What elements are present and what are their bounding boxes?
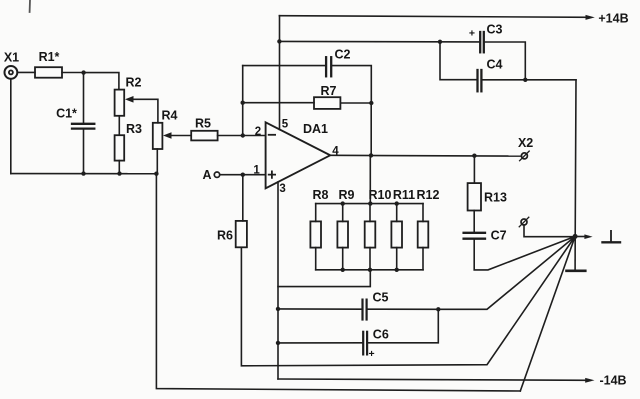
svg-text:R7: R7 [321, 84, 337, 98]
junction C3/C4 right [523, 78, 527, 82]
junction C1/bottom wire [81, 171, 85, 175]
wire R9 top lead [342, 204, 344, 222]
wire R11 top lead [396, 204, 398, 222]
junction C6 left [276, 341, 280, 345]
wire R8-R12 bottom bus [316, 269, 423, 271]
wire star to chassis arrow [575, 234, 593, 239]
svg-text:R6: R6 [217, 229, 233, 243]
capacitor C7 [464, 229, 507, 243]
wire feedback node vertical [242, 66, 244, 136]
wire R13 to C7 [473, 211, 475, 233]
resistor R13 [468, 183, 507, 210]
junction +14V rail / C3 rail [277, 39, 281, 43]
potentiometer R2 [115, 76, 142, 116]
resistor R7 [314, 84, 340, 109]
wire pin 3 supply down [277, 182, 279, 379]
svg-text:C7: C7 [491, 229, 507, 243]
wire C4 left branch [440, 42, 477, 80]
resistor R9 [337, 188, 354, 247]
svg-text:2: 2 [255, 126, 261, 138]
svg-text:C5: C5 [373, 291, 389, 305]
svg-text:R10: R10 [369, 188, 392, 202]
wire R12 top lead [422, 204, 424, 222]
wire shield terminal to star [524, 225, 575, 237]
wire C4 right to ground bus [482, 79, 576, 81]
svg-text:A: A [202, 168, 211, 182]
wire C1 top lead [83, 73, 85, 124]
svg-text:-14В: -14В [599, 374, 626, 388]
capacitor C1* [56, 107, 94, 129]
svg-text:R12: R12 [417, 188, 440, 202]
junction inverting node [241, 133, 245, 137]
wire C7 to star ground [474, 236, 575, 270]
wire left section diagonal to star [520, 236, 575, 391]
resistor R8 [310, 188, 328, 247]
junction output/R13 [472, 154, 476, 158]
wire feedback to output [370, 103, 372, 155]
terminal A [202, 168, 219, 182]
svg-text:R3: R3 [126, 122, 142, 136]
junction R7/C2 right [369, 101, 373, 105]
svg-text:+14В: +14В [598, 12, 628, 26]
svg-text:C4: C4 [487, 58, 503, 72]
wire C6 left lead [278, 342, 363, 344]
wire R6 to star ground run [241, 236, 575, 365]
wire C3 right to C4 right [485, 42, 525, 80]
op-amp DA1 [266, 122, 331, 189]
wire bottom left bus [11, 173, 157, 175]
svg-text:X2: X2 [518, 136, 533, 150]
junction bottom bus R11 [395, 268, 399, 272]
wire A to non-inverting input [220, 174, 266, 176]
capacitor C6 [363, 327, 389, 360]
svg-text:R11: R11 [393, 188, 415, 202]
wire pin3 to R8-R12 bottom bus [278, 270, 370, 287]
wire C2 left branch [243, 65, 325, 67]
svg-text:DA1: DA1 [303, 122, 328, 136]
wire right ground bus down [574, 80, 577, 237]
svg-text:+: + [369, 348, 375, 360]
wire X1 to R1 [18, 71, 36, 73]
svg-text:C1*: C1* [56, 107, 77, 121]
wire node to R2 top [84, 73, 119, 90]
resistor R12 [417, 188, 440, 247]
wire -14V rail [278, 378, 595, 383]
wire C1 bottom lead [83, 129, 85, 174]
junction R4/bottom wire corner [154, 172, 158, 176]
wire R9 bottom lead [342, 248, 344, 270]
wire R8 top lead [315, 204, 317, 222]
resistor R11 [391, 188, 415, 247]
junction bottom bus R10 [368, 268, 372, 272]
wire R10 bottom lead [369, 248, 371, 270]
wire R4 wiper to R5 [163, 132, 191, 139]
wire R1 to node [62, 72, 84, 74]
wire R6 top lead [242, 175, 244, 221]
resistor R3 [115, 122, 142, 161]
svg-text:R4: R4 [162, 108, 178, 122]
wire C5 left lead [278, 308, 361, 310]
capacitor C5 [363, 291, 389, 320]
wire R13 top lead [473, 156, 475, 183]
wire +14V rail [279, 15, 594, 20]
wire R11 bottom lead [396, 248, 398, 270]
potentiometer R4 [153, 108, 178, 149]
svg-text:+: + [469, 28, 475, 40]
svg-text:R2: R2 [126, 76, 142, 90]
junction top bus R10 [368, 201, 372, 205]
wire X1 ground down [10, 79, 12, 174]
capacitor C4 [478, 58, 503, 92]
wire R8 bottom lead [315, 248, 317, 270]
svg-text:C3: C3 [487, 22, 503, 36]
wire pin 5 supply up [279, 16, 281, 130]
wire C5 right lead [368, 308, 439, 310]
wire C5/C6 to star ground [438, 236, 575, 309]
wire C3 rail [279, 40, 479, 43]
resistor R6 [217, 221, 247, 247]
terminal X2 shield [519, 217, 529, 227]
junction A node / R6 [241, 173, 245, 177]
connector X1 [4, 51, 19, 79]
wire output pin 4 [330, 154, 521, 157]
junction C5 left [276, 307, 280, 311]
wire R10 top lead [369, 204, 371, 222]
scan artifact stub top edge [29, 0, 31, 12]
junction C5/C6 right [436, 307, 440, 311]
wire R7 right lead [340, 102, 371, 104]
resistor R10 [365, 188, 392, 247]
ground symbol chassis right [603, 231, 621, 242]
wire R12 bottom lead [422, 248, 424, 270]
wire R2 to R3 [118, 116, 120, 135]
svg-text:C6: C6 [373, 327, 389, 341]
wire R2 wiper to R4 top [125, 96, 158, 123]
svg-text:3: 3 [279, 183, 285, 195]
junction feedback/R7 left [241, 101, 245, 105]
junction bottom bus R9 [341, 268, 345, 272]
svg-text:5: 5 [282, 119, 289, 131]
wire R7 left lead [243, 102, 314, 104]
junction top bus R11 [395, 201, 399, 205]
resistor R1* [35, 50, 62, 78]
wire R4 bottom lead [156, 149, 158, 174]
junction top bus R9 [341, 201, 345, 205]
wire R5 to inverting input [218, 135, 266, 137]
ground symbol below star [567, 236, 586, 270]
wire R3 bottom lead [118, 161, 120, 174]
svg-text:C2: C2 [335, 48, 351, 62]
junction output/feedback/R10 [369, 153, 373, 157]
svg-text:R13: R13 [484, 190, 507, 204]
svg-text:R1*: R1* [39, 50, 60, 64]
wire C6 right lead up to C5 [368, 309, 438, 343]
svg-text:R9: R9 [339, 188, 355, 202]
junction C4 branch [438, 40, 442, 44]
junction R1/C1 [81, 70, 85, 74]
capacitor C2 [326, 48, 350, 77]
wire left section to star ground run [156, 174, 520, 391]
svg-text:R8: R8 [313, 188, 329, 202]
connector X2 [518, 136, 533, 161]
star ground junction [573, 234, 578, 239]
svg-text:X1: X1 [4, 51, 19, 65]
wire R8-R12 top bus [316, 203, 423, 205]
svg-text:R5: R5 [195, 117, 211, 131]
resistor R5 [191, 117, 217, 141]
wire C2 right branch [332, 66, 371, 103]
wire output node down to R8-R12 top bus [369, 155, 371, 203]
capacitor C3 [469, 22, 503, 52]
junction R3/bottom wire [117, 171, 121, 175]
